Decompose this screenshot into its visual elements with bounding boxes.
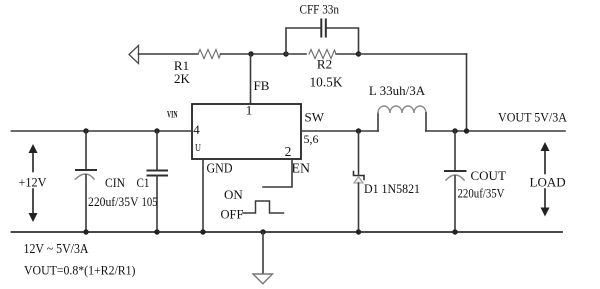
svg-text:5,6: 5,6 [304,132,319,146]
diode D1 [354,131,421,232]
connector arrow (FB off-page) [129,46,139,64]
node CIN bottom [83,229,88,234]
node D1 bottom [356,229,361,234]
pin label GND [207,161,233,176]
svg-text:220uf/35V: 220uf/35V [458,187,505,201]
svg-text:105: 105 [142,194,158,209]
node FB junction [248,51,253,56]
svg-text:CIN: CIN [105,175,126,190]
wire R2 right to corner [359,53,467,55]
svg-text:D1 1N5821: D1 1N5821 [364,181,420,196]
node R2 right junction [356,51,361,56]
svg-text:L 33uh/3A: L 33uh/3A [369,83,426,98]
node C1 bottom [154,229,159,234]
svg-text:2K: 2K [174,71,191,86]
svg-text:SW: SW [305,110,325,125]
svg-text:CFF 33n: CFF 33n [300,3,340,17]
label OFF [221,207,244,222]
svg-text:VIN: VIN [167,110,178,120]
svg-text:VOUT 5V/3A: VOUT 5V/3A [498,110,568,125]
node CIN top [83,128,88,133]
svg-text:+12V: +12V [19,175,48,190]
svg-text:FB: FB [254,78,270,93]
inductor L [369,83,426,131]
pin label VIN [167,110,178,120]
capacitor CIN [76,131,139,232]
node corner junction [464,128,469,133]
pin label EN [292,161,311,176]
wire input rail [12,130,193,132]
svg-text:R2: R2 [317,57,332,72]
capacitor C1 [137,131,168,232]
svg-text:10.5K: 10.5K [310,75,343,90]
wire SW line [301,130,378,132]
node earth junction [260,229,265,234]
svg-text:220uf/35V: 220uf/35V [88,195,139,209]
wire FB node down to pin 1 [251,54,270,104]
label 12V ~ 5V/3A [24,241,89,256]
label ON [224,187,243,202]
wire GND pin down [202,159,204,232]
wire bottom rail [12,231,563,233]
op-amp U (regulator IC box) [192,103,301,160]
wire VOUT line [426,110,568,132]
svg-text:GND: GND [207,161,233,176]
resistor R2 [286,50,359,90]
label VOUT formula [24,263,136,278]
svg-text:ON: ON [224,187,243,202]
wire corner down to VOUT line [466,54,468,131]
node GND bottom [200,229,205,234]
svg-text:VOUT=0.8*(1+R2/R1): VOUT=0.8*(1+R2/R1) [24,263,136,278]
node C1 top [154,128,159,133]
ground [253,232,273,284]
wire arrow to R1 [139,53,199,55]
node COUT top [452,128,457,133]
LOAD arrow [530,142,566,217]
svg-text:LOAD: LOAD [530,175,566,190]
svg-text:1: 1 [246,103,253,118]
wire EN pin down and left [263,159,292,187]
resistor R1 [174,50,221,87]
node COUT bottom [452,229,457,234]
node CFF left junction [283,51,288,56]
svg-text:OFF: OFF [221,207,244,222]
node SW / D1 junction [356,128,361,133]
capacitor CFF branch wires [286,28,359,54]
pulse waveform [243,201,284,213]
capacitor CFF plates [300,3,340,37]
svg-text:C1: C1 [137,175,150,190]
pin label SW [304,110,325,147]
svg-text:U: U [195,143,201,154]
capacitor COUT [445,131,506,232]
svg-text:COUT: COUT [471,168,506,183]
wire R1 to node FB [221,53,287,55]
svg-text:12V ~ 5V/3A: 12V ~ 5V/3A [24,241,89,256]
svg-text:2: 2 [285,144,292,159]
+12V arrow [19,144,48,222]
svg-text:EN: EN [292,161,311,176]
svg-text:4: 4 [193,122,200,137]
